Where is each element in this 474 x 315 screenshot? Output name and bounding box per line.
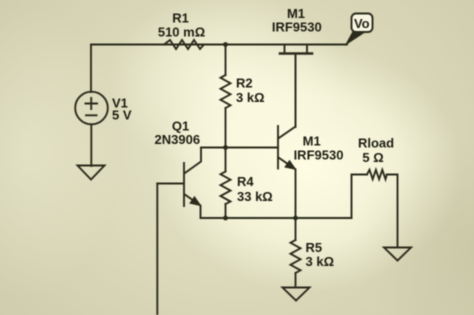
svg-text:IRF9530: IRF9530 <box>272 20 322 35</box>
wire Q1 base lead <box>157 183 184 185</box>
resistor R1 <box>164 40 204 49</box>
label Q1 <box>155 119 201 147</box>
label Rload <box>358 136 394 166</box>
junction dot top R2 tap <box>223 42 228 47</box>
svg-text:3 kΩ: 3 kΩ <box>236 90 265 105</box>
svg-text:M1: M1 <box>303 134 321 149</box>
wire R5 bottom lead <box>295 273 297 288</box>
svg-text:3 kΩ: 3 kΩ <box>306 254 335 269</box>
node Vo box <box>352 14 373 33</box>
wire R4 bottom lead <box>225 204 227 218</box>
label M1 middle <box>294 134 344 163</box>
ground under V1 <box>78 166 105 180</box>
label R2 <box>236 76 265 106</box>
label V1 <box>112 96 132 123</box>
transistor M1 middle <box>278 54 296 219</box>
svg-text:Vo: Vo <box>354 16 370 31</box>
svg-text:IRF9530: IRF9530 <box>294 148 344 163</box>
label R5 <box>306 240 335 269</box>
wire R2 top lead <box>225 45 227 76</box>
wire input line going off bottom <box>156 184 158 315</box>
svg-text:33 kΩ: 33 kΩ <box>237 189 273 204</box>
resistor R2 <box>221 75 231 108</box>
svg-text:R4: R4 <box>237 174 254 189</box>
voltage source V1 <box>75 92 108 125</box>
label R1 <box>158 11 205 40</box>
svg-text:R5: R5 <box>306 240 323 255</box>
wire top rail from V1 to Vo <box>91 44 347 46</box>
label R4 <box>237 174 273 204</box>
wire R2 bottom lead <box>225 108 227 148</box>
resistor R5 <box>291 240 301 273</box>
svg-text:2N3906: 2N3906 <box>155 132 201 147</box>
wire Rload left lead <box>352 175 368 219</box>
junction dot R5 top rail <box>293 216 298 221</box>
wire R4 top lead <box>225 148 227 172</box>
svg-text:R1: R1 <box>172 11 189 26</box>
svg-text:510 mΩ: 510 mΩ <box>158 25 205 40</box>
ground under Rload <box>384 248 411 261</box>
resistor R4 <box>221 172 231 205</box>
transistor M1 top p-mosfet <box>280 45 312 128</box>
junction dot R2 R4 base wire <box>223 145 228 150</box>
svg-text:R2: R2 <box>236 76 253 91</box>
resistor Rload <box>367 170 387 179</box>
wire bottom rail <box>201 217 352 219</box>
label M1 top <box>272 6 322 35</box>
wire V1 top lead <box>90 45 92 93</box>
wire R5 top lead <box>295 218 297 240</box>
svg-text:5 V: 5 V <box>112 108 132 123</box>
junction dot R4 bottom rail <box>223 216 228 221</box>
wire Rload right lead <box>387 175 398 248</box>
transistor Q1 <box>184 148 201 219</box>
ground under R5 <box>283 288 310 301</box>
wire V1 bottom lead <box>90 124 92 166</box>
node Vo flag pointer <box>345 32 367 47</box>
wire base rail Q1 collector to M1 base <box>201 147 278 149</box>
svg-text:Rload: Rload <box>358 136 394 151</box>
svg-text:5 Ω: 5 Ω <box>362 150 383 165</box>
